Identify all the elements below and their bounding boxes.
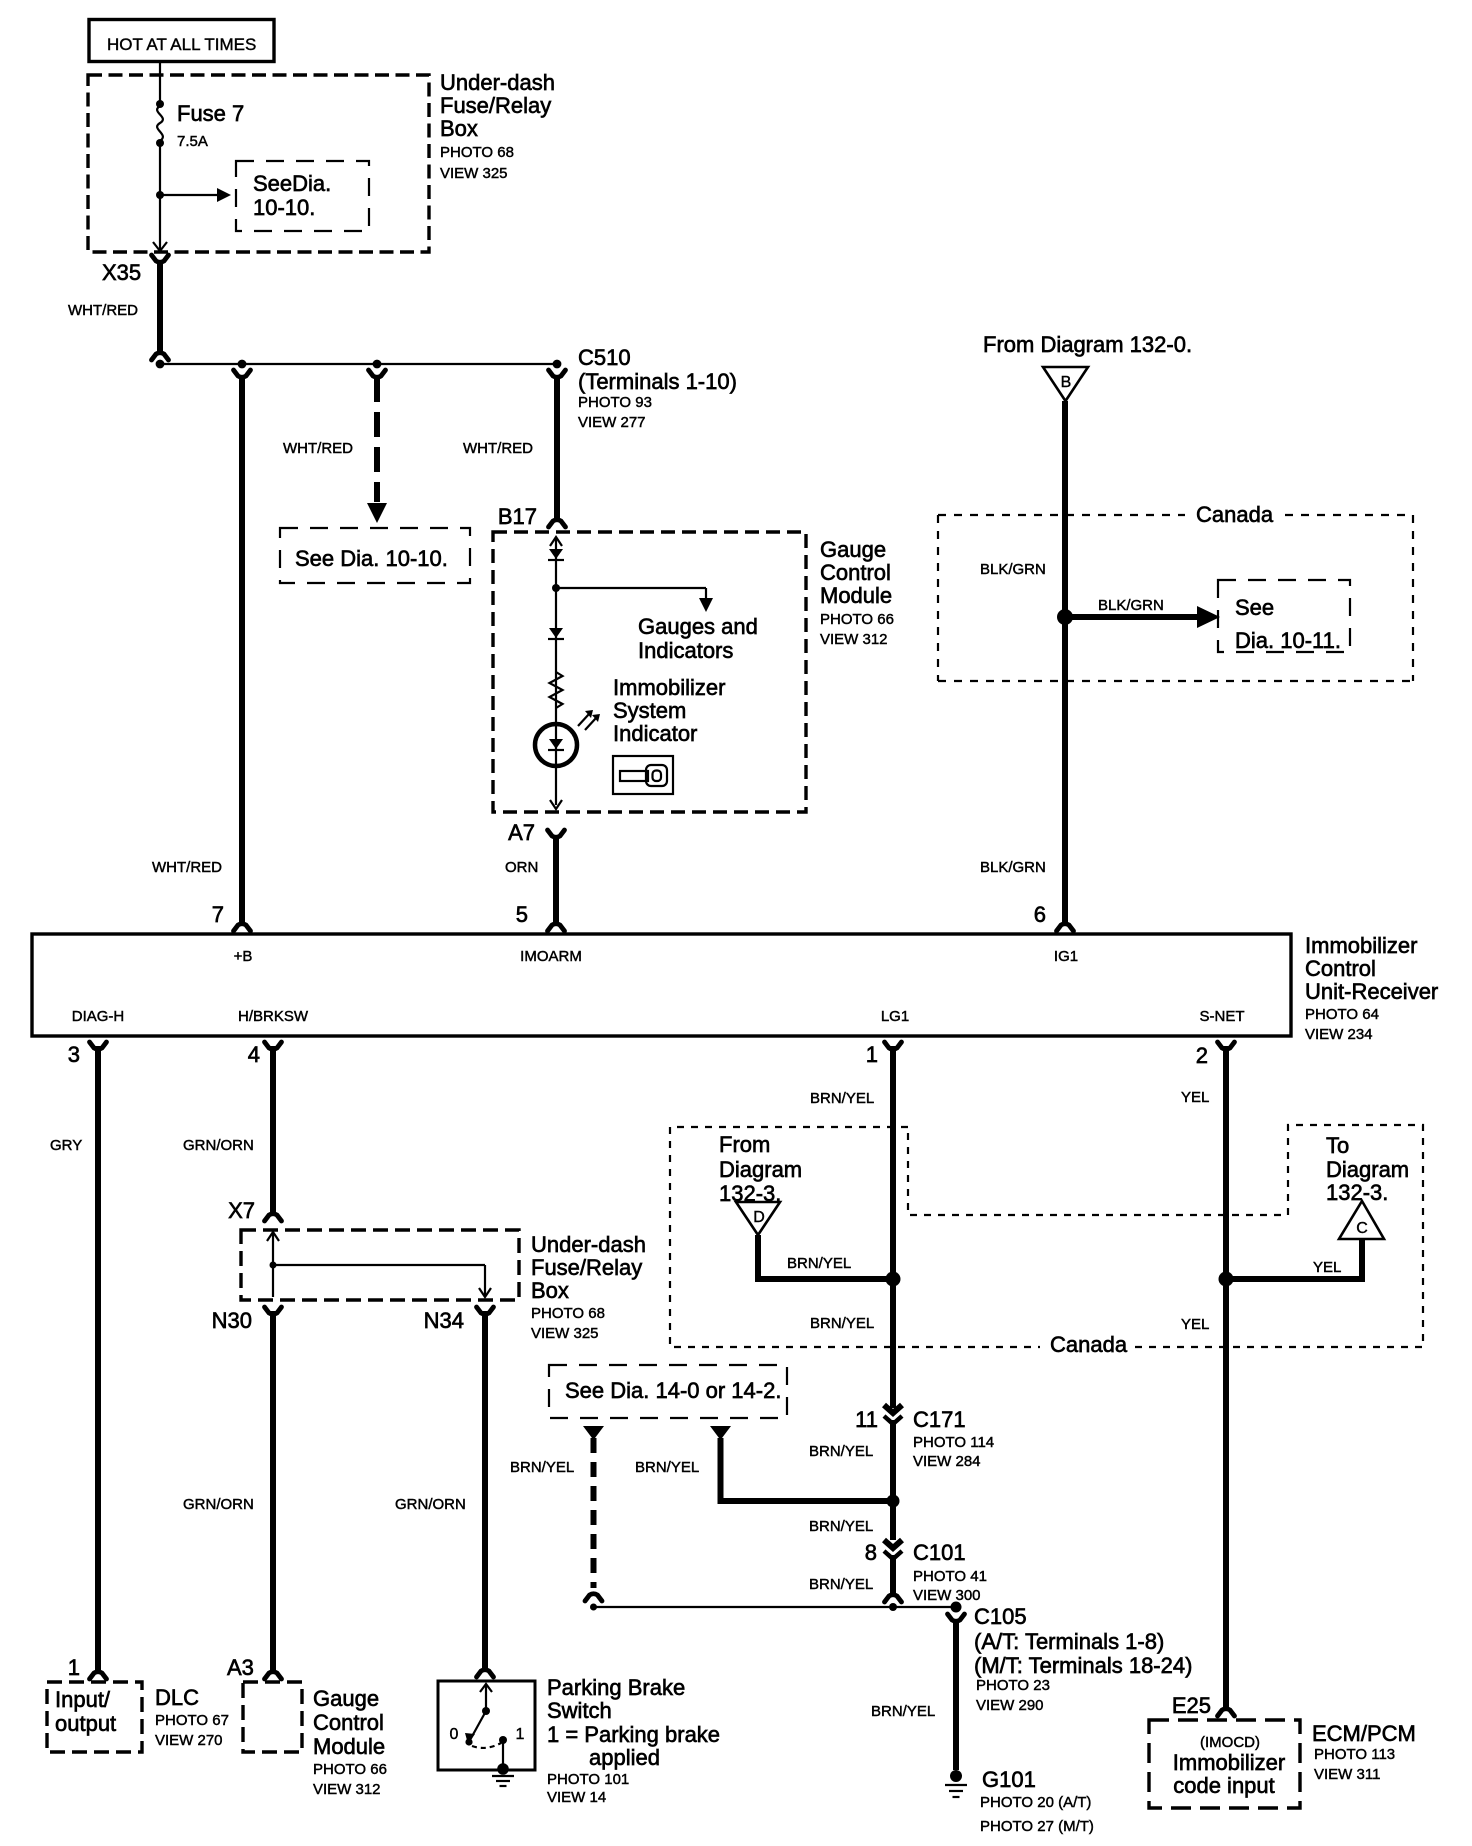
svg-text:PHOTO 101: PHOTO 101: [547, 1771, 629, 1788]
svg-text:GRN/ORN: GRN/ORN: [183, 1496, 254, 1513]
svg-text:10-10.: 10-10.: [253, 195, 315, 220]
svg-text:C510: C510: [578, 345, 631, 370]
svg-text:Fuse/Relay: Fuse/Relay: [531, 1255, 642, 1280]
svg-text:Under-dash: Under-dash: [440, 70, 555, 95]
svg-text:8: 8: [865, 1540, 877, 1565]
svg-text:Box: Box: [531, 1278, 569, 1303]
svg-text:BRN/YEL: BRN/YEL: [810, 1315, 874, 1332]
svg-text:IMOARM: IMOARM: [520, 948, 582, 965]
svg-text:1: 1: [68, 1655, 80, 1680]
svg-text:6: 6: [1034, 902, 1046, 927]
svg-text:WHT/RED: WHT/RED: [463, 440, 533, 457]
svg-text:SeeDia.: SeeDia.: [253, 171, 331, 196]
svg-text:GRN/ORN: GRN/ORN: [183, 1137, 254, 1154]
svg-text:X7: X7: [228, 1198, 255, 1223]
svg-text:VIEW 290: VIEW 290: [976, 1697, 1044, 1714]
svg-text:Box: Box: [440, 116, 478, 141]
svg-text:output: output: [55, 1711, 116, 1736]
svg-text:BLK/GRN: BLK/GRN: [980, 859, 1046, 876]
svg-text:D: D: [753, 1209, 765, 1226]
svg-text:Input/: Input/: [55, 1687, 111, 1712]
svg-text:Switch: Switch: [547, 1698, 612, 1723]
svg-text:DLC: DLC: [155, 1685, 199, 1710]
svg-text:WHT/RED: WHT/RED: [68, 302, 138, 319]
svg-text:0: 0: [450, 1726, 459, 1743]
svg-text:Immobilizer: Immobilizer: [1173, 1750, 1285, 1775]
svg-text:1: 1: [866, 1042, 878, 1067]
svg-text:4: 4: [248, 1042, 260, 1067]
svg-text:BRN/YEL: BRN/YEL: [810, 1090, 874, 1107]
svg-text:PHOTO 20 (A/T): PHOTO 20 (A/T): [980, 1794, 1091, 1811]
svg-text:VIEW 311: VIEW 311: [1314, 1766, 1380, 1783]
svg-text:VIEW 325: VIEW 325: [440, 165, 508, 182]
svg-text:Control: Control: [1305, 956, 1376, 981]
svg-text:PHOTO 27 (M/T): PHOTO 27 (M/T): [980, 1818, 1094, 1835]
svg-text:YEL: YEL: [1181, 1089, 1209, 1106]
svg-text:VIEW 284: VIEW 284: [913, 1453, 981, 1470]
svg-text:Fuse/Relay: Fuse/Relay: [440, 93, 551, 118]
svg-text:Canada: Canada: [1196, 502, 1274, 527]
svg-text:code input: code input: [1173, 1773, 1275, 1798]
svg-text:VIEW 14: VIEW 14: [547, 1789, 606, 1806]
svg-text:Immobilizer: Immobilizer: [1305, 933, 1417, 958]
svg-text:Control: Control: [313, 1710, 384, 1735]
svg-text:To: To: [1326, 1133, 1349, 1158]
svg-text:G101: G101: [982, 1767, 1036, 1792]
svg-text:GRY: GRY: [50, 1137, 82, 1154]
svg-text:Indicators: Indicators: [638, 638, 733, 663]
svg-text:X35: X35: [102, 260, 141, 285]
svg-text:WHT/RED: WHT/RED: [152, 859, 222, 876]
svg-text:Module: Module: [820, 583, 892, 608]
svg-text:Canada: Canada: [1050, 1332, 1128, 1357]
svg-text:Unit-Receiver: Unit-Receiver: [1305, 979, 1438, 1004]
svg-text:See: See: [1235, 595, 1274, 620]
svg-text:BRN/YEL: BRN/YEL: [510, 1459, 574, 1476]
svg-text:VIEW 270: VIEW 270: [155, 1732, 223, 1749]
svg-text:VIEW 325: VIEW 325: [531, 1325, 599, 1342]
svg-text:B: B: [1061, 374, 1072, 391]
svg-text:C: C: [1356, 1220, 1368, 1237]
svg-text:2: 2: [1196, 1043, 1208, 1068]
svg-text:Dia. 10-11.: Dia. 10-11.: [1235, 628, 1341, 653]
svg-text:ORN: ORN: [505, 859, 538, 876]
svg-text:Under-dash: Under-dash: [531, 1232, 646, 1257]
svg-text:From Diagram 132-0.: From Diagram 132-0.: [983, 332, 1192, 357]
svg-text:VIEW 312: VIEW 312: [820, 631, 888, 648]
svg-text:Gauge: Gauge: [820, 537, 886, 562]
svg-text:BRN/YEL: BRN/YEL: [809, 1518, 873, 1535]
svg-text:YEL: YEL: [1181, 1316, 1209, 1333]
svg-text:Gauge: Gauge: [313, 1686, 379, 1711]
svg-text:WHT/RED: WHT/RED: [283, 440, 353, 457]
svg-text:C171: C171: [913, 1407, 966, 1432]
svg-text:3: 3: [68, 1042, 80, 1067]
svg-text:BLK/GRN: BLK/GRN: [1098, 597, 1164, 614]
svg-text:PHOTO 67: PHOTO 67: [155, 1712, 229, 1729]
svg-text:PHOTO 93: PHOTO 93: [578, 394, 652, 411]
svg-text:1 = Parking brake: 1 = Parking brake: [547, 1722, 720, 1747]
svg-text:PHOTO 114: PHOTO 114: [913, 1434, 994, 1451]
svg-text:(A/T: Terminals 1-8): (A/T: Terminals 1-8): [974, 1629, 1164, 1654]
svg-text:1: 1: [516, 1726, 525, 1743]
svg-text:LG1: LG1: [881, 1008, 909, 1025]
svg-text:System: System: [613, 698, 686, 723]
svg-text:C101: C101: [913, 1540, 966, 1565]
svg-text:Diagram: Diagram: [719, 1157, 802, 1182]
svg-text:A3: A3: [227, 1655, 254, 1680]
svg-text:(M/T: Terminals 18-24): (M/T: Terminals 18-24): [974, 1653, 1192, 1678]
svg-text:PHOTO 66: PHOTO 66: [313, 1761, 387, 1778]
svg-text:N34: N34: [424, 1308, 464, 1333]
svg-text:BRN/YEL: BRN/YEL: [809, 1443, 873, 1460]
svg-text:PHOTO 68: PHOTO 68: [440, 144, 514, 161]
svg-text:7: 7: [212, 902, 224, 927]
svg-text:PHOTO 66: PHOTO 66: [820, 611, 894, 628]
svg-text:E25: E25: [1172, 1693, 1211, 1718]
svg-text:132-3.: 132-3.: [1326, 1180, 1388, 1205]
svg-text:Module: Module: [313, 1734, 385, 1759]
svg-text:Fuse 7: Fuse 7: [177, 101, 244, 126]
svg-text:Parking Brake: Parking Brake: [547, 1675, 685, 1700]
svg-text:N30: N30: [212, 1308, 252, 1333]
svg-text:VIEW 300: VIEW 300: [913, 1587, 981, 1604]
svg-text:S-NET: S-NET: [1200, 1008, 1245, 1025]
svg-text:See Dia. 14-0 or 14-2.: See Dia. 14-0 or 14-2.: [565, 1378, 781, 1403]
svg-text:From: From: [719, 1132, 770, 1157]
svg-text:11: 11: [855, 1407, 878, 1432]
svg-text:VIEW 277: VIEW 277: [578, 414, 646, 431]
svg-text:7.5A: 7.5A: [177, 133, 208, 150]
svg-text:ECM/PCM: ECM/PCM: [1312, 1721, 1416, 1746]
svg-text:PHOTO 113: PHOTO 113: [1314, 1746, 1395, 1763]
svg-text:(IMOCD): (IMOCD): [1200, 1734, 1260, 1751]
svg-text:Control: Control: [820, 560, 891, 585]
svg-text:PHOTO 68: PHOTO 68: [531, 1305, 605, 1322]
svg-text:YEL: YEL: [1313, 1259, 1341, 1276]
svg-text:5: 5: [516, 902, 528, 927]
svg-text:PHOTO 23: PHOTO 23: [976, 1677, 1050, 1694]
svg-text:Immobilizer: Immobilizer: [613, 675, 725, 700]
svg-text:HOT AT ALL TIMES: HOT AT ALL TIMES: [107, 35, 256, 54]
svg-text:A7: A7: [508, 820, 535, 845]
svg-text:PHOTO 41: PHOTO 41: [913, 1568, 987, 1585]
svg-text:(Terminals 1-10): (Terminals 1-10): [578, 369, 737, 394]
svg-text:Gauges and: Gauges and: [638, 614, 758, 639]
svg-text:Diagram: Diagram: [1326, 1157, 1409, 1182]
svg-text:B17: B17: [498, 504, 537, 529]
svg-text:PHOTO 64: PHOTO 64: [1305, 1006, 1379, 1023]
svg-text:BRN/YEL: BRN/YEL: [871, 1703, 935, 1720]
svg-text:C105: C105: [974, 1604, 1027, 1629]
svg-text:BRN/YEL: BRN/YEL: [809, 1576, 873, 1593]
svg-text:BRN/YEL: BRN/YEL: [787, 1255, 851, 1272]
svg-text:BRN/YEL: BRN/YEL: [635, 1459, 699, 1476]
svg-text:Indicator: Indicator: [613, 721, 697, 746]
svg-text:VIEW 312: VIEW 312: [313, 1781, 381, 1798]
svg-text:GRN/ORN: GRN/ORN: [395, 1496, 466, 1513]
svg-text:+B: +B: [234, 948, 253, 965]
svg-text:VIEW 234: VIEW 234: [1305, 1026, 1373, 1043]
svg-text:IG1: IG1: [1054, 948, 1078, 965]
svg-text:H/BRKSW: H/BRKSW: [238, 1008, 309, 1025]
svg-text:DIAG-H: DIAG-H: [72, 1008, 125, 1025]
svg-text:BLK/GRN: BLK/GRN: [980, 561, 1046, 578]
svg-text:See Dia. 10-10.: See Dia. 10-10.: [295, 546, 448, 571]
svg-text:applied: applied: [589, 1745, 660, 1770]
